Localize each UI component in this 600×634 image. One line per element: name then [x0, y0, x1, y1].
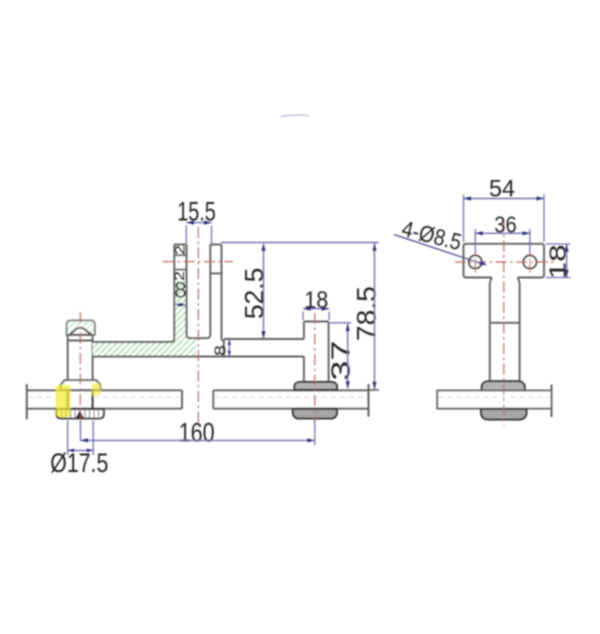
faint rail mid dashed line right view — [439, 396, 551, 398]
faint rail mid dashed line B — [214, 396, 367, 398]
dimension 78.5 — [352, 243, 382, 389]
dimension 15.5 — [177, 197, 216, 244]
yellow highlight right — [92, 383, 101, 396]
right support top pad (gray) — [294, 382, 337, 390]
svg-text:52.5: 52.5 — [239, 268, 269, 320]
slot with rounded bottom — [187, 245, 211, 339]
right support arm top edge — [224, 338, 304, 340]
svg-text:2: 2 — [172, 245, 188, 255]
dimension 18 (left view) — [303, 287, 329, 320]
post cap (hatched) — [67, 321, 95, 335]
right support post — [304, 322, 329, 382]
svg-text:37: 37 — [325, 341, 355, 381]
left jaw tiny blue width arrows — [175, 303, 186, 307]
right jaw — [210, 245, 224, 357]
post collar — [61, 380, 101, 390]
dimension 160 — [81, 418, 315, 448]
flange inner ticks — [62, 411, 99, 418]
svg-text:160: 160 — [179, 418, 215, 448]
red centerline: clamp — [197, 227, 199, 427]
rail segment B (right) — [213, 390, 368, 408]
svg-text:Ø17.5: Ø17.5 — [50, 448, 108, 478]
rail segment A (left) — [27, 390, 182, 408]
rail top extension stub right — [369, 389, 380, 391]
bottom pad (gray) right view — [481, 409, 527, 420]
dimension 18 (right view) — [545, 244, 571, 279]
stem — [490, 278, 520, 382]
red centerline: left post — [79, 312, 81, 433]
svg-text:8: 8 — [212, 345, 229, 356]
post through rail — [68, 390, 93, 409]
yellow highlight left — [56, 385, 71, 418]
dimension 36 — [475, 212, 530, 254]
red centerline: right support — [314, 313, 316, 432]
post body — [68, 335, 93, 380]
left jaw inner lines — [174, 255, 186, 269]
rail left end bar — [26, 384, 28, 419]
plate — [464, 244, 545, 278]
dimension 52.5 — [221, 243, 379, 339]
left jaw — [172, 245, 187, 343]
red centerline right view horizontal — [455, 261, 555, 263]
arm top edge left — [93, 341, 173, 343]
cap hatch softener — [67, 321, 95, 335]
red centerline: clamp horizontal — [163, 261, 233, 263]
rail right view — [437, 391, 551, 409]
hole right — [523, 256, 536, 269]
svg-text:8: 8 — [174, 278, 187, 303]
right support bottom pad (gray) — [293, 409, 337, 419]
arm bottom edge — [93, 356, 304, 358]
post neck band — [68, 335, 93, 341]
dimension 8 (arm thickness) — [212, 339, 231, 357]
red centerline right view vertical — [503, 220, 505, 426]
red hole tick left — [474, 251, 476, 274]
rail right end bar — [368, 384, 370, 417]
faint rail mid dashed line A — [28, 396, 66, 398]
red hole tick right — [529, 251, 531, 274]
svg-text:78.5: 78.5 — [352, 286, 382, 341]
black arrow under post — [76, 410, 85, 418]
top pad (gray) right view — [482, 381, 525, 391]
rail right end bar — [551, 385, 553, 418]
label 4-diameter-8.5 with leader — [394, 215, 487, 265]
cap dome triangle — [70, 328, 92, 335]
dimension diameter 17.5 — [50, 421, 108, 479]
dimension 54 — [464, 176, 545, 243]
svg-text:4-Ø8.5: 4-Ø8.5 — [399, 215, 464, 255]
clamp hatched body (jaw strip + arm band + under-slot) — [93, 281, 196, 357]
post bottom flange — [57, 409, 104, 418]
hole left — [469, 256, 482, 269]
faint artifact swoosh top center — [281, 115, 309, 116]
dimension 37 — [325, 323, 355, 389]
